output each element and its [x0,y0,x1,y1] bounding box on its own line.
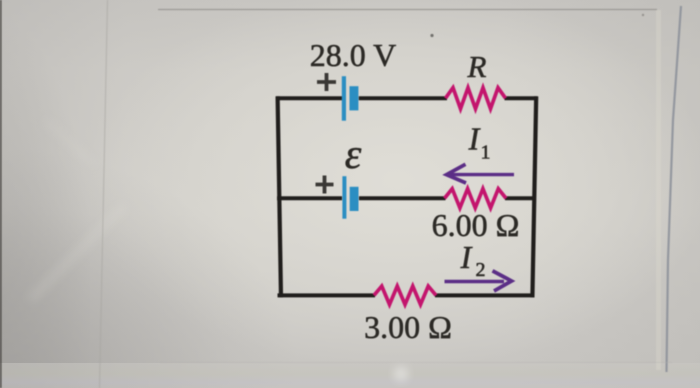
wire: top loop right of battery to resistor R [359,96,447,100]
battery EMF plus sign [316,176,334,194]
faint left page fold line [100,0,108,388]
current arrow I2 pointing right [445,271,512,291]
svg-text:I: I [468,121,481,157]
resistor 3.00 ohm zigzag [374,286,436,304]
soft reflection streak lower-left [30,120,125,300]
svg-text:1: 1 [481,142,491,164]
svg-text:ε: ε [345,132,362,178]
dark photo edge at far left [0,0,2,388]
top horizontal rule of page [158,9,657,11]
wire: right vertical rail [532,96,536,297]
resistor R zigzag [446,88,506,109]
wire: middle branch right of battery to 6-ohm resistor [359,196,446,200]
dust speck [430,34,433,37]
wire: top loop right of R to corner [505,96,538,100]
wire: middle branch right of resistor to right rail [505,196,536,200]
wire: middle branch left segment [277,196,342,200]
right page edge line [667,6,682,372]
svg-text:I: I [460,239,473,275]
svg-text:2: 2 [476,259,486,281]
resistor 6.00 ohm zigzag [445,189,507,208]
svg-text:28.0 V: 28.0 V [310,37,397,73]
battery 28.0 V plates [342,76,359,121]
wire: top loop left segment [276,96,342,100]
wire: bottom loop left of 3-ohm resistor [278,293,376,297]
bottom strip divider [160,362,672,364]
svg-text:3.00 Ω: 3.00 Ω [364,309,452,345]
battery EMF plates [342,176,358,219]
svg-text:R: R [467,49,487,84]
battery 28.0 V plus sign [317,73,336,91]
wire: left vertical rail [278,96,281,297]
dust speck [642,14,644,16]
photo highlight smudge [395,368,408,381]
current arrow I1 pointing left [447,164,515,183]
svg-text:6.00 Ω: 6.00 Ω [432,207,520,243]
light paper-edge stripe near right [656,10,661,370]
wire: bottom loop right of 3-ohm resistor [435,293,534,297]
